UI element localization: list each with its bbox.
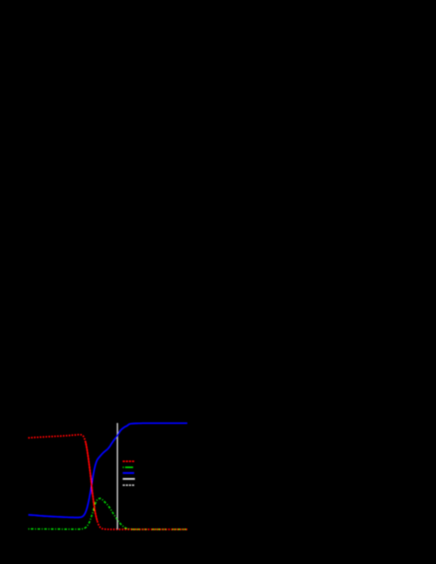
legend entry 5: gray dashed sample line xyxy=(123,484,135,486)
green dash-dot curve (intermediate species) xyxy=(28,498,187,529)
blue solid curve (electron fraction) xyxy=(28,423,187,517)
legend entry 1: red dashed sample line xyxy=(123,460,135,462)
legend entry 2: green dash-dot sample line xyxy=(123,466,135,468)
red dotted curve (neutral fraction) xyxy=(28,435,187,530)
legend entry 4: gray solid sample line xyxy=(123,478,135,480)
red dotted curve steep segment overlay xyxy=(85,441,97,521)
legend entry 3: blue solid sample line xyxy=(123,472,135,474)
vertical marker line (gray axvline) xyxy=(116,423,118,530)
